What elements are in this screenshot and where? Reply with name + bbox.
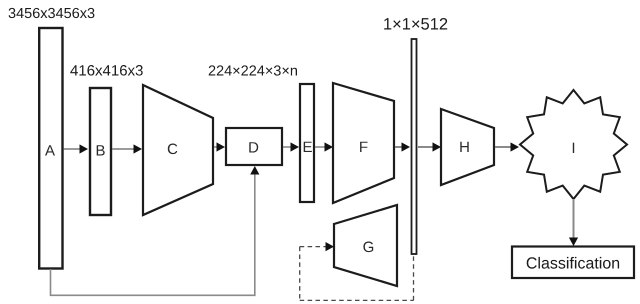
label H	[460, 142, 468, 152]
arrow A to B	[64, 144, 89, 153]
label F	[360, 142, 367, 152]
arrow B to C	[112, 144, 142, 153]
arrowhead into D bottom	[250, 166, 259, 175]
dashed wire left vertical	[299, 247, 301, 301]
label Classification	[527, 257, 619, 269]
arrow I to Classification	[569, 199, 578, 246]
label E	[304, 142, 312, 152]
block C	[143, 85, 213, 215]
label D	[249, 142, 258, 152]
arrow E to F	[315, 142, 333, 151]
arrow D to E	[283, 142, 299, 151]
label C	[168, 144, 178, 155]
feedback wire from A bottom to D	[51, 172, 255, 295]
block B	[90, 88, 111, 215]
dashed wire bottom horizontal	[300, 299, 414, 301]
starburst I	[520, 90, 627, 199]
arrow H to I	[495, 142, 519, 151]
bar 1x1x512	[412, 39, 417, 254]
label 1x1x512	[384, 18, 447, 30]
label G	[363, 242, 373, 253]
arrow F to bar	[395, 142, 410, 151]
block E	[300, 84, 314, 202]
block A	[39, 28, 62, 269]
label B	[97, 145, 105, 155]
label 416x416x3	[70, 65, 142, 76]
block F	[333, 83, 394, 203]
label A	[45, 145, 55, 155]
classification box	[512, 247, 634, 279]
block D	[226, 128, 282, 165]
label I	[573, 143, 574, 153]
dashed wire right vertical from bar	[413, 255, 415, 300]
arrow bar to H	[418, 142, 441, 151]
block G	[334, 205, 397, 286]
block H	[441, 109, 494, 185]
label 3456x3456x3	[9, 8, 95, 18]
dashed arrow into G	[300, 242, 334, 251]
arrow C to D	[214, 142, 225, 151]
label 224x224x3xn	[209, 65, 297, 75]
